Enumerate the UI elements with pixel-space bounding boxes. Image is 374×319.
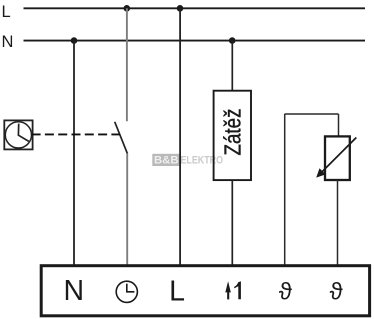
- switch S1 blade: [115, 122, 128, 154]
- timer clock face: [5, 122, 31, 148]
- terminal arrow-1 label: [227, 288, 229, 299]
- dashed mechanical link timer-to-switch: [32, 133, 120, 135]
- wire: sensor loop right vertical to sensor top: [338, 114, 340, 137]
- svg-text:ϑ: ϑ: [279, 279, 292, 306]
- junction on N line (load branch): [229, 37, 236, 44]
- terminal clock symbol: [116, 281, 137, 302]
- watermark: [152, 154, 223, 167]
- svg-text:ELEKTRO: ELEKTRO: [181, 155, 224, 167]
- junction on L line (switch branch): [124, 5, 131, 12]
- wire: N line to load top: [231, 41, 233, 91]
- wire: sensor bottom to terminal: [337, 180, 339, 265]
- junction on L line (L terminal branch): [177, 5, 184, 12]
- temperature sensor box: [325, 136, 350, 180]
- svg-text:Zátěž: Zátěž: [220, 109, 246, 156]
- wire: N supply line: [24, 40, 366, 42]
- wire: sensor loop left vertical: [284, 114, 286, 265]
- svg-text:L: L: [169, 276, 185, 308]
- wire: L line to terminal L: [179, 8, 181, 265]
- svg-text:ϑ: ϑ: [330, 279, 343, 306]
- wire: load bottom to terminal 1: [231, 180, 233, 265]
- timer clock hands: [18, 124, 28, 142]
- svg-text:N: N: [2, 33, 14, 51]
- wire: L line down to switch contact: [126, 8, 128, 121]
- wire: N line to terminal N: [73, 41, 75, 265]
- terminal block: [41, 266, 369, 316]
- wire: sensor loop top horizontal: [285, 113, 339, 115]
- timer clock symbol box: [4, 120, 32, 149]
- load box Zátěž: [214, 91, 251, 180]
- sensor variability arrow: [322, 138, 357, 173]
- junction on N line (N terminal branch): [71, 37, 78, 44]
- svg-text:N: N: [64, 275, 85, 307]
- svg-text:B&B: B&B: [154, 155, 179, 167]
- wire: L supply line: [24, 7, 366, 9]
- wire: switch to clock terminal: [126, 153, 128, 265]
- svg-text:L: L: [2, 3, 11, 21]
